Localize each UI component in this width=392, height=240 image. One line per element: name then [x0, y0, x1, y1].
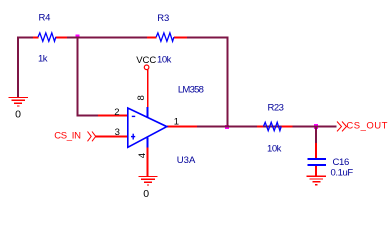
svg-text:C16: C16: [333, 157, 350, 168]
svg-text:R3: R3: [157, 13, 169, 24]
svg-text:2: 2: [114, 107, 119, 118]
svg-text:1: 1: [174, 116, 179, 127]
svg-text:1k: 1k: [38, 54, 48, 65]
svg-text:R4: R4: [39, 12, 51, 23]
svg-text:0: 0: [143, 188, 149, 200]
svg-text:U3A: U3A: [177, 155, 196, 166]
svg-text:0: 0: [15, 108, 21, 120]
svg-text:CS_IN: CS_IN: [54, 130, 81, 141]
svg-text:10k: 10k: [157, 54, 172, 65]
svg-text:3: 3: [115, 127, 120, 138]
svg-text:4: 4: [137, 153, 148, 158]
svg-text:10k: 10k: [267, 143, 282, 154]
svg-text:CS_OUT: CS_OUT: [346, 120, 388, 131]
svg-text:R23: R23: [268, 103, 284, 114]
svg-text:8: 8: [136, 95, 147, 100]
svg-text:LM358: LM358: [178, 84, 204, 95]
svg-text:VCC: VCC: [136, 55, 156, 66]
svg-text:0.1uF: 0.1uF: [331, 168, 354, 179]
